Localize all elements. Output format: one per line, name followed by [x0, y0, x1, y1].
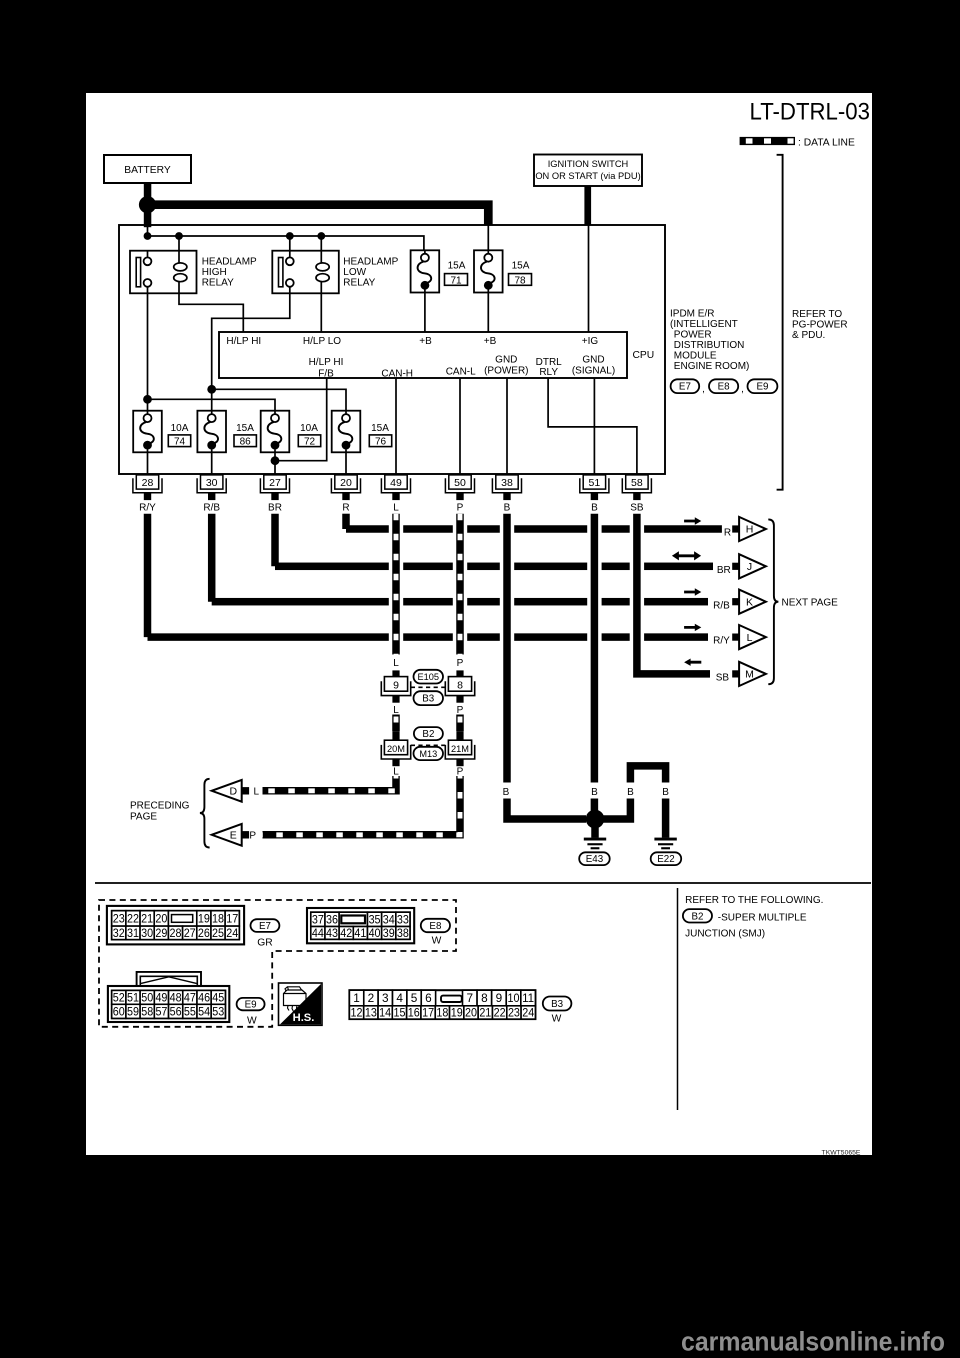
- figure code: [822, 1150, 861, 1157]
- wire junction to ground E43: [591, 819, 599, 838]
- svg-text:48: 48: [170, 991, 182, 1005]
- svg-text:B: B: [591, 787, 598, 798]
- label REFER TO THE FOLLOWING: [685, 895, 823, 906]
- pin label H/LP LO: [303, 336, 341, 347]
- dashed SMJ separator E105/B3: [411, 686, 445, 688]
- pin 8 connector E105/B3: [445, 670, 474, 702]
- svg-text:9: 9: [393, 679, 399, 691]
- svg-text:17: 17: [226, 912, 238, 926]
- svg-text:15A: 15A: [236, 423, 254, 434]
- svg-text:B3: B3: [422, 694, 435, 705]
- wire P data pin50 to E105 pin8: [456, 514, 464, 655]
- pin 30 IPDM: [197, 475, 226, 500]
- svg-text:H: H: [746, 524, 754, 536]
- pin label H/LP HI: [226, 336, 261, 347]
- svg-text:H/LP HI: H/LP HI: [309, 357, 344, 368]
- wire B pin38 upper: [503, 514, 511, 783]
- svg-text:MODULE: MODULE: [674, 351, 717, 362]
- svg-text:E7: E7: [259, 921, 271, 932]
- legend data line sample: [740, 137, 794, 145]
- label B3 oval W: [543, 997, 572, 1025]
- connector D preceding page: [212, 780, 249, 802]
- svg-text:GND: GND: [495, 355, 517, 366]
- svg-text:P: P: [457, 658, 464, 669]
- svg-text:W: W: [247, 1016, 257, 1027]
- label wire color SB pin 58: [630, 503, 644, 514]
- svg-text:50: 50: [454, 477, 466, 489]
- svg-text:6: 6: [425, 991, 432, 1005]
- wire L data pin49 to E105 pin9: [392, 514, 400, 655]
- fuse 15A 76: [332, 411, 361, 453]
- label fuse 10A 72: [298, 423, 320, 447]
- label wire color P pin 50: [457, 503, 464, 514]
- svg-text:M13: M13: [419, 749, 437, 759]
- wire R/B pin30 to connector K: [212, 514, 708, 606]
- svg-text:26: 26: [198, 926, 210, 940]
- svg-text:51: 51: [127, 991, 139, 1005]
- node battery junction: [139, 196, 156, 213]
- svg-text:40: 40: [369, 928, 381, 940]
- svg-text:19: 19: [451, 1006, 463, 1020]
- connector M next page: [732, 662, 766, 686]
- svg-text:B: B: [503, 787, 510, 798]
- svg-text:IPDM E/R: IPDM E/R: [670, 309, 714, 320]
- svg-text:15: 15: [393, 1006, 405, 1020]
- svg-text:R/B: R/B: [713, 600, 730, 611]
- svg-text:51: 51: [589, 477, 601, 489]
- label REFER TO PG-POWER: [792, 309, 848, 341]
- legend label DATA LINE: [798, 137, 855, 148]
- svg-text:ON OR START (via PDU): ON OR START (via PDU): [535, 171, 640, 181]
- svg-text:HEADLAMP: HEADLAMP: [343, 256, 398, 267]
- wire fuse72 to pin 27 with H/LP HI F/B tap: [275, 378, 327, 474]
- label L above pin9: [393, 658, 399, 669]
- svg-text:55: 55: [184, 1005, 196, 1019]
- svg-text:B: B: [591, 503, 598, 514]
- svg-text:53: 53: [212, 1005, 224, 1019]
- svg-text:10A: 10A: [300, 423, 318, 434]
- pin label +B (fuse 71): [419, 336, 432, 347]
- connector H next page: [732, 517, 766, 541]
- svg-text:& PDU.: & PDU.: [792, 330, 825, 341]
- wire battery to junction: [144, 183, 152, 205]
- svg-text:K: K: [746, 596, 753, 608]
- divider line: [677, 888, 679, 1110]
- label B wire38: [503, 787, 510, 798]
- arrow row H: [684, 517, 701, 524]
- svg-text:B2: B2: [422, 729, 434, 740]
- svg-text:(INTELLIGENT: (INTELLIGENT: [670, 319, 738, 330]
- svg-text:14: 14: [379, 1006, 391, 1020]
- label R row H: [724, 528, 731, 539]
- svg-text:LOW: LOW: [343, 267, 366, 278]
- svg-text:L: L: [393, 705, 399, 716]
- svg-text:38: 38: [501, 477, 513, 489]
- svg-text:19: 19: [198, 912, 210, 926]
- dashed SMJ separator B2/M13: [411, 744, 445, 746]
- svg-text:23: 23: [113, 912, 125, 926]
- label fuse 10A 74: [168, 423, 190, 447]
- CPU box: [219, 332, 627, 378]
- pin 58 IPDM: [622, 475, 651, 500]
- pin label CAN-L: [446, 366, 476, 377]
- connector E preceding page: [212, 824, 249, 846]
- svg-text:W: W: [432, 936, 442, 947]
- pin label DTRL RLY: [536, 357, 563, 378]
- svg-text:21: 21: [479, 1006, 491, 1020]
- svg-text:RLY: RLY: [539, 367, 558, 378]
- connector E7 oval annotation: [671, 379, 705, 395]
- wire SB pin58 to connector M: [637, 514, 710, 674]
- svg-text:15A: 15A: [371, 423, 389, 434]
- brace next page: [768, 519, 778, 684]
- svg-text:20: 20: [340, 477, 352, 489]
- pin 27 IPDM: [260, 475, 289, 500]
- svg-text:32: 32: [113, 926, 125, 940]
- svg-text:M: M: [745, 669, 754, 681]
- wire relay1 coil to CPU H/LP HI: [179, 293, 243, 332]
- svg-text:IGNITION SWITCH: IGNITION SWITCH: [548, 159, 629, 169]
- wire relay feed line: [148, 236, 424, 251]
- connector view E8: [307, 908, 414, 943]
- node feed relay1 switch: [144, 232, 152, 240]
- connector E43 oval: [579, 852, 610, 865]
- svg-text:5: 5: [411, 991, 418, 1005]
- label SB row M: [716, 673, 730, 684]
- label IPDM E/R block: [670, 309, 749, 373]
- svg-text:60: 60: [113, 1005, 125, 1019]
- svg-text:10A: 10A: [171, 423, 189, 434]
- label E9 oval W: [237, 998, 265, 1027]
- svg-text:L: L: [747, 632, 753, 644]
- wire battery to relay feed: [144, 205, 152, 236]
- svg-text:R: R: [342, 503, 349, 514]
- label L below pin 20M: [393, 767, 399, 778]
- pin 20 IPDM: [331, 475, 360, 500]
- svg-text:RELAY: RELAY: [343, 277, 375, 288]
- wire fuse71 to CPU +B: [424, 293, 426, 333]
- pin 50 IPDM: [445, 475, 474, 500]
- node feed relay1 coil: [175, 232, 183, 251]
- svg-text:13: 13: [365, 1006, 377, 1020]
- svg-text:1: 1: [353, 991, 360, 1005]
- svg-text:,: ,: [741, 384, 744, 395]
- wire B pin51 upper: [591, 514, 599, 783]
- svg-text:16: 16: [408, 1006, 420, 1020]
- svg-text:E7: E7: [679, 382, 691, 393]
- arrow row M left: [684, 659, 701, 666]
- connector view B3: [349, 990, 535, 1019]
- svg-text:P: P: [457, 767, 464, 778]
- pin label GND (POWER): [484, 355, 528, 377]
- label wire color B pin 38: [504, 503, 511, 514]
- svg-text:34: 34: [383, 914, 396, 926]
- relay headlamp high: [130, 251, 197, 294]
- svg-text:18: 18: [212, 912, 224, 926]
- svg-text:POWER: POWER: [674, 330, 712, 341]
- label E8 oval W: [421, 919, 450, 947]
- svg-text:CPU: CPU: [633, 350, 655, 361]
- label headlamp low relay: [343, 256, 398, 288]
- svg-text:E8: E8: [718, 382, 731, 393]
- svg-text:H/LP LO: H/LP LO: [303, 336, 341, 347]
- label CPU: [633, 350, 655, 361]
- svg-text:56: 56: [170, 1005, 182, 1019]
- label P above pin8: [457, 658, 464, 669]
- wire fuse74 to pin 28: [147, 452, 149, 474]
- wire relay2 switch to fuse 86 and 76: [212, 287, 346, 411]
- IPDM E/R box: [119, 225, 665, 474]
- svg-text:22: 22: [494, 1006, 506, 1020]
- label B wire51: [591, 787, 598, 798]
- node feed relay2 switch: [286, 232, 294, 251]
- pin label +B (fuse 78): [484, 336, 497, 347]
- svg-text:carmanualsonline.info: carmanualsonline.info: [681, 1327, 945, 1357]
- svg-text:SB: SB: [630, 503, 644, 514]
- wire B pin51 to ground junction: [591, 799, 599, 820]
- arrow row K: [684, 588, 701, 595]
- svg-text:36: 36: [326, 914, 338, 926]
- svg-text:CAN-L: CAN-L: [446, 366, 476, 377]
- svg-text:,: ,: [702, 384, 705, 395]
- svg-text:B3: B3: [551, 999, 564, 1010]
- svg-text:(SIGNAL): (SIGNAL): [572, 366, 615, 377]
- wire DTRL RLY to pin 58: [548, 378, 637, 474]
- ground E22: [654, 838, 676, 850]
- wire +IG to CPU: [588, 225, 590, 332]
- label R/Y row L: [713, 636, 730, 647]
- wire CAN-H to pin 49: [395, 378, 397, 474]
- label fuse 15A 78: [509, 261, 532, 287]
- label wire color L pin 49: [393, 503, 399, 514]
- svg-text:REFER TO: REFER TO: [792, 309, 842, 320]
- node feed relay2 coil: [317, 232, 325, 251]
- svg-text:54: 54: [198, 1005, 210, 1019]
- svg-text:10: 10: [508, 991, 520, 1005]
- svg-text:H.S.: H.S.: [293, 1012, 315, 1024]
- svg-text:W: W: [552, 1014, 562, 1025]
- svg-text:3: 3: [382, 991, 389, 1005]
- label B wire E43 leg: [627, 787, 634, 798]
- svg-text:49: 49: [390, 477, 402, 489]
- arrow row J double: [672, 551, 701, 560]
- svg-text:GR: GR: [257, 938, 272, 949]
- svg-text:58: 58: [141, 1005, 153, 1019]
- svg-text:TKWT5065E: TKWT5065E: [822, 1150, 861, 1157]
- svg-text:E8: E8: [429, 921, 442, 932]
- svg-text:HIGH: HIGH: [202, 267, 227, 278]
- svg-text:B: B: [504, 503, 511, 514]
- svg-text:22: 22: [127, 912, 139, 926]
- svg-text:18: 18: [436, 1006, 448, 1020]
- ignition switch box: [534, 155, 642, 187]
- svg-text:RELAY: RELAY: [202, 277, 234, 288]
- fuse 15A 78: [474, 225, 503, 293]
- svg-text:25: 25: [212, 926, 224, 940]
- label wire color R pin 20: [342, 503, 349, 514]
- svg-text:21: 21: [141, 912, 153, 926]
- svg-text:49: 49: [155, 991, 167, 1005]
- svg-text:GND: GND: [582, 355, 604, 366]
- label P row E: [249, 831, 256, 842]
- node ground junction: [586, 810, 605, 829]
- battery: [104, 155, 191, 183]
- connector view E7: [107, 906, 244, 945]
- node relay1 switch feed: [143, 395, 152, 404]
- wire R pin20 to connector H: [346, 514, 722, 533]
- label wire color BR pin 27: [268, 503, 282, 514]
- svg-text:BR: BR: [717, 565, 731, 576]
- svg-text:R/Y: R/Y: [713, 636, 730, 647]
- svg-text:L: L: [393, 767, 399, 778]
- pin 51 IPDM: [580, 475, 609, 500]
- label P below pin8: [457, 705, 464, 716]
- svg-text:52: 52: [113, 991, 125, 1005]
- connector B3 oval (SMJ): [414, 691, 444, 705]
- svg-text:L: L: [393, 503, 399, 514]
- label PRECEDING PAGE: [130, 800, 190, 822]
- svg-text:20: 20: [465, 1006, 477, 1020]
- relay headlamp low: [272, 251, 339, 294]
- svg-text:PG-POWER: PG-POWER: [792, 320, 848, 331]
- svg-text:21M: 21M: [451, 743, 469, 754]
- wire fuse78 to CPU +B: [487, 293, 489, 333]
- svg-text:REFER TO THE FOLLOWING.: REFER TO THE FOLLOWING.: [685, 895, 823, 906]
- svg-text:E9: E9: [245, 1000, 257, 1011]
- svg-text:20: 20: [155, 912, 167, 926]
- label E7 oval GR: [251, 919, 280, 948]
- svg-text:4: 4: [396, 991, 403, 1005]
- svg-text:P: P: [249, 831, 256, 842]
- svg-text:42: 42: [340, 928, 352, 940]
- connector B2 oval (SMJ): [414, 727, 443, 740]
- svg-text:27: 27: [184, 926, 196, 940]
- svg-text:57: 57: [155, 1005, 167, 1019]
- wire P data pin8 to pin 21M: [456, 715, 464, 732]
- pin label +IG: [582, 336, 599, 347]
- svg-text:30: 30: [206, 477, 218, 489]
- pin 28 IPDM: [133, 475, 162, 500]
- svg-text:35: 35: [369, 914, 381, 926]
- connector M13 oval: [414, 747, 444, 760]
- svg-text:8: 8: [457, 679, 463, 691]
- svg-text:(POWER): (POWER): [484, 366, 528, 377]
- dashed box connector views: [99, 900, 456, 1027]
- pin label H/LP HI F/B: [309, 357, 344, 379]
- svg-text:PAGE: PAGE: [130, 811, 157, 822]
- svg-text:J: J: [747, 561, 752, 573]
- pin 21M connector B2/M13: [445, 731, 474, 766]
- wire P data to preceding page E: [263, 776, 461, 835]
- icon H.S.: [279, 983, 323, 1025]
- svg-text:8: 8: [481, 991, 488, 1005]
- fuse 10A 72: [261, 411, 290, 453]
- svg-text:R/B: R/B: [203, 503, 220, 514]
- label fuse 15A 76: [369, 423, 391, 447]
- svg-text:76: 76: [375, 437, 387, 448]
- svg-text:43: 43: [326, 928, 338, 940]
- label BR row J: [717, 565, 731, 576]
- svg-text:R: R: [724, 528, 731, 539]
- svg-text:B2: B2: [691, 911, 703, 922]
- svg-text:E: E: [230, 830, 237, 842]
- svg-text:41: 41: [354, 928, 366, 940]
- svg-text:HEADLAMP: HEADLAMP: [202, 256, 257, 267]
- label B wire E22 leg: [662, 787, 669, 798]
- connector E22 oval: [651, 852, 682, 865]
- label wire color B pin 51: [591, 503, 598, 514]
- svg-text:CAN-H: CAN-H: [381, 368, 413, 379]
- label wire color R/B pin 30: [203, 503, 220, 514]
- title LT-DTRL-03: [750, 99, 871, 126]
- pin label CAN-H: [381, 368, 413, 379]
- pin 49 IPDM: [381, 475, 410, 500]
- svg-text:39: 39: [383, 928, 395, 940]
- connector B2 oval SMJ note: [683, 909, 712, 922]
- svg-text:+B: +B: [419, 336, 432, 347]
- svg-text:B: B: [662, 787, 669, 798]
- wire fuse76 to pin 20: [345, 452, 347, 474]
- svg-text:28: 28: [170, 926, 182, 940]
- svg-text:BATTERY: BATTERY: [124, 165, 171, 176]
- svg-text:JUNCTION (SMJ): JUNCTION (SMJ): [685, 928, 765, 939]
- svg-text:29: 29: [155, 926, 167, 940]
- connector E8 oval annotation: [709, 379, 744, 395]
- wire GND POWER to pin 38: [506, 378, 508, 474]
- svg-text:PRECEDING: PRECEDING: [130, 800, 190, 811]
- svg-text:P: P: [457, 705, 464, 716]
- svg-text:: DATA LINE: : DATA LINE: [798, 137, 855, 148]
- separator line: [95, 882, 871, 884]
- svg-text:31: 31: [127, 926, 139, 940]
- svg-text:44: 44: [312, 928, 325, 940]
- connector K next page: [732, 590, 766, 614]
- svg-text:SB: SB: [716, 673, 730, 684]
- label L row D: [254, 787, 260, 798]
- svg-text:+B: +B: [484, 336, 497, 347]
- svg-text:59: 59: [127, 1005, 139, 1019]
- wire battery bus to IPDM +B: [148, 205, 489, 225]
- svg-text:E105: E105: [418, 672, 439, 682]
- svg-text:78: 78: [514, 275, 526, 286]
- svg-text:15A: 15A: [512, 261, 530, 272]
- svg-text:E43: E43: [586, 854, 604, 865]
- svg-text:R/Y: R/Y: [139, 503, 156, 514]
- wire fuse86 to pin 30: [211, 452, 213, 474]
- wire L data pin9 to pin 20M: [392, 715, 400, 732]
- wire BR pin27 to connector J: [275, 514, 713, 570]
- svg-text:47: 47: [184, 991, 196, 1005]
- wire L data to preceding page D: [263, 776, 397, 791]
- svg-text:11: 11: [522, 991, 534, 1005]
- ground E43: [584, 838, 606, 850]
- wire relay1 switch to fuse 74 and 72: [148, 287, 276, 411]
- wire B pin38 to ground junction: [507, 799, 586, 820]
- arrow row L: [684, 624, 701, 631]
- svg-text:ENGINE ROOM): ENGINE ROOM): [674, 361, 750, 372]
- connector L next page: [732, 625, 766, 649]
- node H/LP HI F/B tap: [271, 456, 280, 465]
- svg-text:45: 45: [212, 991, 224, 1005]
- label R/B row K: [713, 600, 730, 611]
- svg-text:NEXT PAGE: NEXT PAGE: [782, 597, 839, 608]
- svg-text:33: 33: [397, 914, 409, 926]
- svg-text:LT-DTRL-03: LT-DTRL-03: [750, 99, 871, 126]
- label headlamp high relay: [202, 256, 257, 288]
- svg-text:86: 86: [240, 437, 252, 448]
- svg-text:27: 27: [269, 477, 281, 489]
- wire ground junction to E22 branch: [595, 766, 666, 838]
